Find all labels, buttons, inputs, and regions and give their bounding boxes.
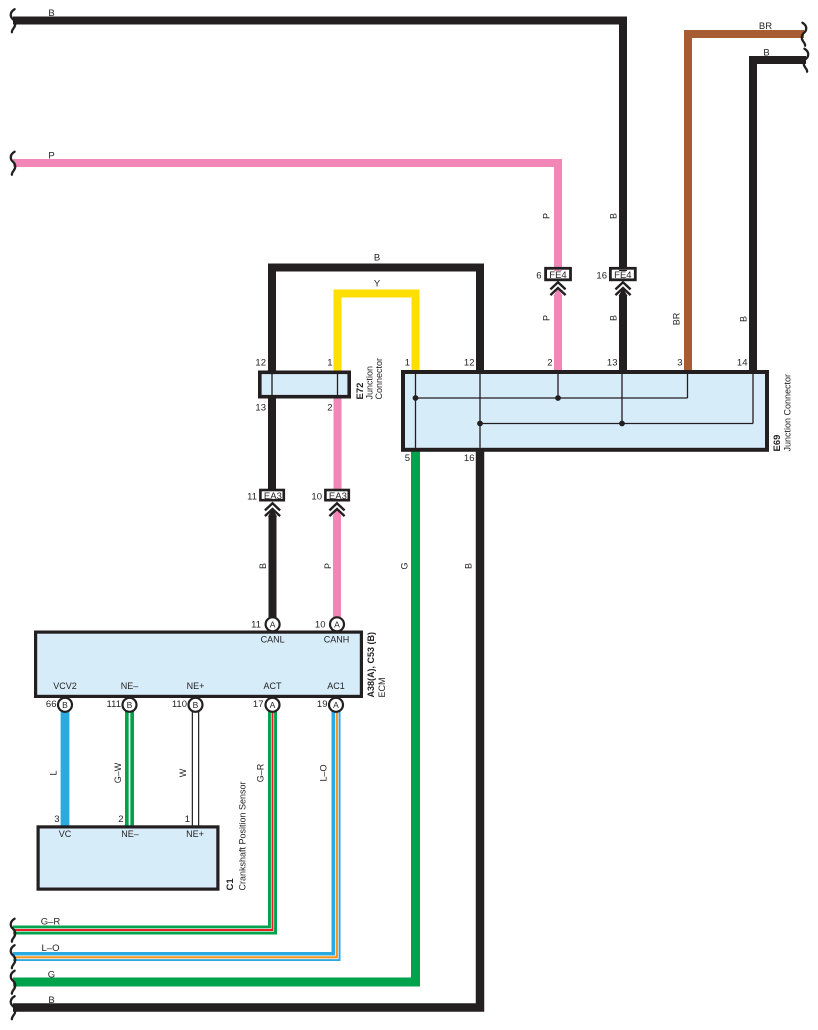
svg-text:B: B — [609, 315, 619, 321]
svg-text:A: A — [334, 620, 340, 630]
svg-text:B: B — [127, 700, 133, 710]
connector FE4 pin 16 — [596, 268, 635, 295]
wire P E72 pin2 down to EA3 10 — [334, 397, 342, 490]
svg-text:NE+: NE+ — [186, 829, 204, 839]
svg-text:16: 16 — [596, 271, 607, 282]
svg-text:E69: E69 — [772, 435, 783, 452]
svg-text:11: 11 — [251, 620, 261, 631]
squiggle wire B bottom — [11, 996, 16, 1019]
svg-text:B: B — [193, 700, 199, 710]
wire G-R ECM pin17 to bottom left — [13, 712, 273, 931]
squiggle wire L-O — [11, 945, 16, 968]
svg-text:B: B — [609, 213, 619, 219]
svg-text:CANH: CANH — [324, 635, 350, 645]
svg-text:B: B — [48, 8, 54, 19]
svg-text:G: G — [400, 562, 410, 569]
svg-text:10: 10 — [311, 491, 322, 502]
wire B right edge down to E69 pin 14 — [753, 60, 806, 372]
wire B E69 pin16 to bottom left — [13, 449, 480, 1008]
wire B EA3 to ECM pin 11 (with arrow tip) — [268, 509, 277, 517]
squiggle wire G bottom — [11, 971, 16, 994]
squiggle wire P — [11, 152, 16, 175]
svg-text:B: B — [374, 253, 380, 264]
svg-text:L–O: L–O — [42, 943, 60, 954]
svg-text:10: 10 — [315, 620, 326, 631]
wire P horizontal to FE4 6 — [13, 163, 558, 269]
junction connector E72 — [260, 372, 349, 396]
junction connector E69 — [403, 372, 767, 450]
svg-text:W: W — [178, 768, 188, 777]
svg-text:A38(A), C53 (B): A38(A), C53 (B) — [366, 632, 376, 698]
squiggle wire G-R — [11, 919, 16, 942]
svg-text:B: B — [48, 995, 54, 1006]
ECM pin circle 110 B — [172, 698, 203, 712]
svg-text:1: 1 — [327, 358, 332, 369]
svg-text:19: 19 — [317, 699, 328, 710]
svg-text:13: 13 — [607, 358, 618, 369]
svg-text:NE–: NE– — [121, 829, 139, 839]
svg-text:A: A — [333, 700, 339, 710]
wire B loop E72 pin12 to E69 pin12 — [272, 268, 480, 373]
svg-text:B: B — [258, 563, 268, 569]
svg-text:VCV2: VCV2 — [53, 681, 77, 691]
svg-text:ECM: ECM — [377, 678, 387, 698]
svg-text:B: B — [763, 48, 769, 59]
C1 crankshaft position sensor box — [38, 827, 218, 889]
svg-text:NE+: NE+ — [187, 681, 205, 691]
svg-text:B: B — [464, 563, 474, 569]
wire BR from right edge down to E69 pin 3 — [688, 34, 804, 372]
wire G E69 pin5 to bottom left — [13, 449, 416, 982]
ECM pin circle 11 A — [251, 617, 279, 631]
svg-text:ACT: ACT — [264, 681, 283, 691]
ECM pin circle 111 B — [107, 698, 137, 712]
wire B E72 pin13 down to EA3 11 — [268, 397, 276, 490]
svg-text:G: G — [48, 970, 55, 981]
svg-text:6: 6 — [536, 271, 541, 282]
wire G-W ECM pin111 to C1 pin2 — [125, 712, 134, 829]
ECM pin circle 19 A — [317, 698, 343, 712]
svg-text:110: 110 — [172, 699, 187, 710]
svg-text:Connector: Connector — [374, 358, 384, 400]
svg-text:G–W: G–W — [113, 762, 123, 783]
svg-text:P: P — [48, 151, 54, 162]
svg-text:11: 11 — [247, 491, 257, 502]
svg-text:13: 13 — [255, 403, 266, 414]
svg-text:3: 3 — [677, 358, 682, 369]
svg-text:EA3: EA3 — [264, 491, 282, 502]
svg-text:14: 14 — [737, 358, 748, 369]
svg-text:12: 12 — [464, 358, 475, 369]
svg-text:G–R: G–R — [256, 763, 266, 782]
wire W ECM pin110 to C1 pin1 — [192, 712, 200, 829]
svg-text:2: 2 — [547, 358, 552, 369]
svg-text:FE4: FE4 — [614, 270, 631, 281]
svg-text:3: 3 — [54, 814, 59, 825]
wire Y loop E72 pin1 to E69 pin1 — [338, 294, 416, 373]
svg-text:2: 2 — [118, 814, 123, 825]
svg-text:L: L — [49, 770, 59, 775]
svg-text:EA3: EA3 — [329, 491, 347, 502]
wire B top-left horizontal to FE4 16 — [13, 21, 623, 270]
svg-text:Junction Connector: Junction Connector — [783, 374, 793, 452]
squiggle wire BR — [802, 23, 807, 46]
svg-text:G–R: G–R — [41, 917, 61, 928]
svg-text:CANL: CANL — [261, 635, 285, 645]
svg-text:1: 1 — [185, 814, 190, 825]
svg-text:111: 111 — [107, 699, 121, 710]
svg-text:AC1: AC1 — [327, 681, 345, 691]
svg-text:NE–: NE– — [121, 681, 139, 691]
svg-text:VC: VC — [59, 829, 72, 839]
svg-text:12: 12 — [255, 358, 266, 369]
connector EA3 pin 11 — [247, 490, 284, 516]
svg-text:P: P — [542, 213, 552, 219]
svg-text:Crankshaft Position Sensor: Crankshaft Position Sensor — [238, 781, 248, 890]
svg-text:P: P — [542, 315, 552, 321]
ECM pin circle 66 B — [46, 698, 72, 712]
svg-text:16: 16 — [464, 453, 475, 464]
svg-text:Y: Y — [374, 279, 381, 290]
svg-text:17: 17 — [253, 699, 264, 710]
svg-text:5: 5 — [405, 453, 410, 464]
svg-text:1: 1 — [405, 358, 410, 369]
svg-text:BR: BR — [672, 312, 682, 325]
svg-text:2: 2 — [327, 403, 332, 414]
svg-text:P: P — [323, 563, 333, 569]
svg-text:66: 66 — [46, 699, 57, 710]
svg-text:C1: C1 — [225, 878, 236, 891]
ECM pin circle 10 A — [315, 617, 344, 631]
svg-text:Junction: Junction — [365, 366, 375, 400]
connector FE4 pin 6 — [536, 268, 570, 295]
svg-text:FE4: FE4 — [549, 270, 566, 281]
wire L-O ECM pin19 to bottom left — [13, 712, 337, 958]
wire B FE4 to E69 pin13 (with arrow tip) — [619, 288, 628, 296]
svg-text:A: A — [270, 700, 276, 710]
svg-text:B: B — [62, 700, 68, 710]
svg-text:A: A — [270, 620, 276, 630]
wire P EA3 to ECM pin 10 (with arrow tip) — [333, 509, 342, 517]
wire L ECM pin66 to C1 pin3 — [61, 712, 70, 829]
squiggle wire B right — [804, 49, 809, 72]
svg-text:B: B — [739, 316, 749, 322]
connector EA3 pin 10 — [311, 490, 348, 516]
ECM pin circle 17 A — [253, 698, 280, 712]
svg-text:L–O: L–O — [319, 764, 329, 781]
wire P FE4 to E69 pin2 (with arrow tip) — [554, 288, 563, 296]
squiggle wire B top-left — [11, 9, 16, 32]
ECM box A38(A), C53(B) — [36, 632, 362, 696]
svg-text:BR: BR — [759, 21, 772, 32]
